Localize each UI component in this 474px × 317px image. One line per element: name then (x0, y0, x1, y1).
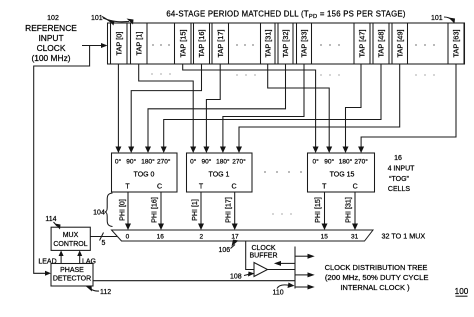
tap cell TAP[63] greyed (448, 23, 464, 64)
wire TAP15 to TOG15 0deg (183, 64, 316, 150)
svg-text:101: 101 (91, 15, 103, 22)
svg-text:114: 114 (45, 216, 56, 223)
svg-text:TAP [16]: TAP [16] (197, 29, 206, 57)
PHASE DETECTOR box (51, 264, 93, 287)
wire PHI[31] (354, 192, 356, 227)
svg-text:102: 102 (47, 15, 59, 22)
svg-text:CELLS: CELLS (388, 186, 411, 193)
svg-text:C: C (353, 184, 358, 191)
svg-text:TOG 0: TOG 0 (134, 172, 155, 179)
svg-text:TOG 15: TOG 15 (330, 172, 355, 179)
svg-text:PHI [16]: PHI [16] (151, 197, 159, 223)
svg-text:270°: 270° (354, 158, 368, 166)
svg-text:TOG 1: TOG 1 (209, 172, 230, 179)
svg-text:15: 15 (321, 234, 329, 241)
wire TAP49 to TOG1 270deg (239, 64, 400, 150)
svg-text:180°: 180° (339, 158, 353, 166)
tree arrow right 2 (295, 274, 309, 276)
TOG 0 box (112, 153, 178, 192)
wire TAP0 to TOG0 0deg (117, 64, 119, 150)
tap cell TAP[32] (278, 23, 293, 64)
svg-text:2: 2 (199, 234, 203, 241)
svg-text:180°: 180° (141, 158, 155, 166)
svg-text:CLOCK: CLOCK (37, 43, 66, 53)
svg-text:C: C (231, 184, 236, 191)
wire PHI[15] (324, 192, 326, 227)
dots gap4 (415, 44, 435, 46)
wire LAG (79, 254, 81, 264)
svg-text:PHI [31]: PHI [31] (345, 197, 353, 223)
svg-text:INTERNAL CLOCK ): INTERNAL CLOCK ) (340, 283, 410, 292)
svg-text:64-STAGE PERIOD MATCHED DLL (: 64-STAGE PERIOD MATCHED DLL (TPD = 156 P… (166, 10, 406, 21)
wire mux control to mux, 5 bits (90, 236, 117, 238)
svg-text:LAG: LAG (82, 259, 96, 266)
svg-text:90°: 90° (201, 158, 211, 166)
wire LEAD (60, 254, 62, 264)
svg-text:TAP [15]: TAP [15] (179, 29, 188, 57)
svg-text:PHI [0]: PHI [0] (119, 199, 127, 221)
clock tree bus (294, 247, 296, 289)
wire TAP48 to TOG0 270deg (164, 64, 381, 150)
mux trapezoid 32 to 1 (112, 230, 374, 241)
buffer triangle 108 (254, 263, 268, 277)
tap cell TAP[48] (373, 23, 389, 64)
clock distribution tree text (325, 263, 429, 292)
svg-text:TAP [49]: TAP [49] (396, 29, 405, 57)
svg-text:DETECTOR: DETECTOR (53, 276, 91, 283)
svg-text:16: 16 (157, 234, 165, 241)
svg-text:106: 106 (219, 247, 231, 254)
svg-text:90°: 90° (126, 158, 136, 166)
svg-text:(200 MHz, 50% DUTY CYCLE: (200 MHz, 50% DUTY CYCLE (325, 273, 429, 282)
wire branch down to phase detector (34, 46, 90, 274)
svg-text:PHASE: PHASE (60, 267, 84, 274)
dots gap1 (152, 44, 170, 46)
wire TAP33 to TOG1 180deg (223, 64, 304, 150)
wire TAP31 to TOG15 90deg (268, 64, 330, 150)
svg-text:(100 MHz): (100 MHz) (31, 53, 70, 63)
svg-text:T: T (322, 184, 327, 191)
wire PHI[16] (160, 192, 162, 227)
dots between TOG boxes (264, 171, 302, 173)
svg-text:31: 31 (351, 234, 359, 241)
annotation 16 4-input TOG cells (388, 155, 416, 193)
svg-text:TAP [63]: TAP [63] (452, 29, 461, 57)
svg-text:LEAD: LEAD (38, 259, 56, 266)
svg-text:0°: 0° (115, 158, 122, 166)
svg-text:0°: 0° (312, 158, 319, 166)
svg-text:TAP [0]: TAP [0] (114, 32, 123, 56)
dots gap3 (320, 44, 340, 46)
tap cell TAP[17] (212, 23, 229, 64)
wire TAP1 to TOG1 0deg (139, 64, 194, 150)
tap cell TAP[49] (392, 23, 408, 64)
svg-text:0: 0 (126, 234, 130, 241)
svg-text:T: T (199, 184, 204, 191)
svg-text:100: 100 (455, 287, 469, 296)
dots gap2 (236, 44, 254, 46)
svg-text:TAP [1]: TAP [1] (134, 32, 143, 56)
TOG 15 box (308, 153, 375, 192)
wire buffer output to bus (268, 269, 296, 271)
svg-text:0°: 0° (190, 158, 197, 166)
wire TAP17 to TOG1 90deg (206, 64, 220, 150)
svg-text:270°: 270° (232, 158, 246, 166)
svg-text:CLOCK DISTRIBUTION TREE: CLOCK DISTRIBUTION TREE (325, 263, 428, 272)
tree arrow right 1 (295, 255, 309, 257)
svg-text:“TOG”: “TOG” (389, 176, 409, 183)
wire reference clock into DLL (82, 45, 104, 47)
svg-text:17: 17 (231, 234, 239, 241)
tap cell TAP[1] (131, 23, 148, 64)
svg-text:TAP [31]: TAP [31] (264, 29, 273, 57)
wire feedback to phase detector (93, 280, 295, 282)
svg-text:MUX: MUX (63, 232, 79, 239)
svg-text:TAP [33]: TAP [33] (300, 29, 309, 57)
svg-text:270°: 270° (157, 158, 171, 166)
TOG 1 box (187, 153, 253, 192)
svg-text:BUFFER: BUFFER (250, 253, 278, 260)
tap cell TAP[33] (297, 23, 312, 64)
MUX CONTROL box (51, 227, 90, 250)
svg-text:112: 112 (100, 289, 111, 296)
tap cell TAP[16] (194, 23, 210, 64)
svg-text:104: 104 (93, 210, 105, 217)
wire TAP16 to TOG0 90deg (131, 64, 201, 150)
tap cell TAP[0] (111, 23, 128, 64)
svg-text:CLOCK: CLOCK (251, 245, 275, 252)
svg-text:CONTROL: CONTROL (53, 241, 87, 248)
svg-text:PHI [15]: PHI [15] (314, 197, 322, 223)
svg-text:5: 5 (102, 240, 106, 247)
wire TAP47 to TOG15 180deg (346, 64, 362, 150)
wire TAP63 to TOG15 270deg (361, 64, 456, 150)
svg-text:T: T (125, 184, 130, 191)
svg-text:180°: 180° (216, 158, 230, 166)
svg-text:PHI [1]: PHI [1] (191, 199, 199, 221)
wire PHI[1] (200, 192, 202, 227)
svg-text:108: 108 (230, 274, 242, 281)
svg-text:TAP [32]: TAP [32] (281, 29, 290, 57)
tree arrow left (280, 262, 295, 264)
svg-text:16: 16 (394, 155, 402, 162)
wire PHI[0] (127, 192, 129, 227)
svg-text:REFERENCE: REFERENCE (25, 23, 77, 33)
svg-text:110: 110 (273, 290, 284, 297)
brace 104 (105, 193, 113, 227)
svg-text:4 INPUT: 4 INPUT (388, 166, 416, 173)
svg-text:101: 101 (431, 15, 443, 22)
svg-text:PHI [17]: PHI [17] (225, 197, 233, 223)
wire mux output to clock buffer (246, 241, 254, 270)
tap cell TAP[31] (261, 23, 276, 64)
svg-text:90°: 90° (324, 158, 334, 166)
svg-text:32 TO 1 MUX: 32 TO 1 MUX (382, 232, 426, 241)
reference input clock text (25, 23, 77, 63)
wire TAP32 to TOG0 180deg (148, 64, 286, 150)
tree arrow right 3 (295, 286, 309, 288)
tap cell TAP[47] (354, 23, 370, 64)
dots between PHI wires (272, 213, 292, 215)
svg-text:INPUT: INPUT (38, 33, 63, 43)
tap cell TAP[15] (175, 23, 192, 64)
svg-text:TAP [47]: TAP [47] (358, 29, 367, 57)
DLL box U101 (108, 23, 465, 64)
svg-text:TAP [48]: TAP [48] (377, 29, 386, 57)
wire PHI[17] (234, 192, 236, 227)
mux input numbers (126, 234, 359, 241)
routing dots below box (151, 73, 435, 76)
svg-text:C: C (157, 184, 162, 191)
svg-text:TAP [17]: TAP [17] (216, 29, 225, 57)
